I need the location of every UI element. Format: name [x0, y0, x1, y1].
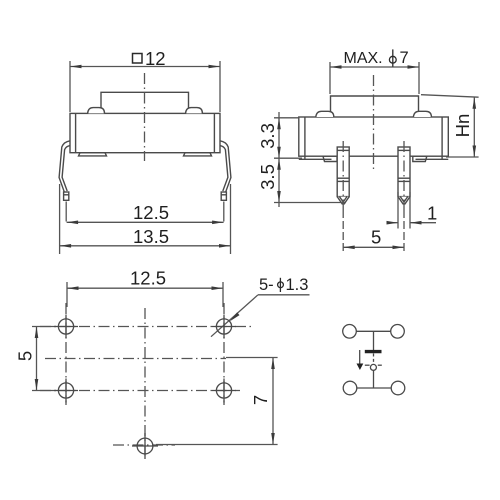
- dim 5 arrows (side): [343, 246, 355, 250]
- dim 5 extension lines (bottom): [32, 326, 56, 328]
- row 1 centerline: [40, 326, 253, 328]
- side view left bump: [316, 111, 334, 117]
- dim □12 line: [70, 66, 220, 68]
- leader 5-phi1.3 text: [259, 276, 308, 294]
- bottom wire: [357, 387, 391, 389]
- svg-text:5: 5: [371, 227, 381, 248]
- dim 13.5 extension lines: [59, 184, 61, 254]
- dim □12 text: [133, 48, 166, 69]
- terminal circle top-right: [391, 325, 405, 339]
- dim 3.3/3.5 line: [278, 112, 280, 207]
- front view centerline: [144, 73, 146, 161]
- leader arrow: [230, 312, 240, 321]
- row 2 centerline: [40, 390, 240, 392]
- dim 12.5 foot centerlines: [65, 202, 67, 222]
- svg-text:1.3: 1.3: [286, 276, 309, 294]
- svg-text:5-: 5-: [259, 276, 274, 294]
- front view left leg: [59, 141, 70, 192]
- dim Hn arrows: [473, 97, 477, 109]
- dim 12.5 extension lines (bottom): [66, 282, 68, 307]
- dim 1 arrows: [387, 221, 399, 225]
- svg-text:12.5: 12.5: [130, 268, 166, 289]
- side view body: [299, 117, 449, 156]
- svg-text:12: 12: [145, 48, 166, 69]
- front view left bump: [88, 108, 105, 114]
- dim □12 arrows: [70, 65, 82, 69]
- svg-text:MAX.: MAX.: [344, 50, 383, 67]
- svg-text:3.5: 3.5: [257, 164, 278, 190]
- dim 7 extension lines: [226, 357, 278, 359]
- dim 12.5 arrows (bottom): [67, 286, 79, 290]
- dim Hn extension lines: [421, 95, 479, 98]
- dim 5 line (side): [343, 246, 404, 248]
- dim 7 line: [272, 358, 274, 445]
- side view button cap: [331, 96, 419, 117]
- front view right bump: [186, 108, 203, 114]
- leader 5-phi1.3 diagonal: [211, 295, 258, 337]
- left column centerline: [65, 303, 67, 405]
- hole 5 horizontal centerline: [113, 444, 175, 446]
- middle vertical centerline: [144, 308, 146, 459]
- hole bottom-left: [58, 383, 73, 398]
- terminal circle bottom-right: [391, 381, 405, 395]
- dim 5 arrows (bottom): [35, 327, 39, 339]
- hole bottom-right: [216, 383, 231, 398]
- right column centerline: [223, 303, 225, 405]
- top wire: [356, 330, 390, 332]
- svg-text:1: 1: [427, 203, 437, 224]
- svg-text:3.3: 3.3: [257, 123, 278, 149]
- side view inner wall lines: [304, 117, 306, 159]
- front view right leg: [220, 141, 231, 192]
- dim 13.5 line: [60, 245, 231, 247]
- dim 12.5 arrows (front): [67, 221, 79, 225]
- leader 5-phi1.3 underline: [258, 294, 310, 296]
- svg-text:5: 5: [15, 351, 36, 361]
- right pin: [398, 147, 410, 197]
- svg-text:13.5: 13.5: [133, 226, 169, 247]
- hole top-right: [216, 319, 231, 334]
- lower stem wire: [373, 370, 375, 388]
- svg-text:7: 7: [400, 49, 409, 67]
- dim 12.5 line (bottom): [67, 287, 223, 289]
- dim 1 lines: [387, 222, 398, 224]
- svg-text:Hn: Hn: [452, 114, 473, 138]
- dim Hn line: [473, 97, 475, 157]
- left pin: [337, 147, 349, 197]
- dashed actuator link: [373, 354, 375, 365]
- dim 5 line (bottom): [36, 327, 38, 391]
- dim 3.3/3.5 extension lines: [274, 117, 299, 119]
- side view right bottom tab: [413, 156, 427, 161]
- svg-text:12.5: 12.5: [133, 202, 169, 223]
- dim MAX phi7 text: [344, 49, 409, 67]
- press arrow head: [357, 364, 364, 371]
- upper stem wire: [373, 331, 375, 350]
- contact dot circle: [370, 364, 376, 370]
- front view right bottom tab: [184, 153, 212, 156]
- dim MAX phi7 extension lines: [329, 62, 331, 94]
- middle horizontal centerline: [45, 358, 226, 360]
- dim □12 extension lines: [69, 61, 71, 112]
- side view centerline: [373, 75, 375, 170]
- dashes beside contact: [365, 364, 370, 366]
- right pin centerline: [403, 141, 405, 210]
- dim 3.3/3.5 arrows: [277, 118, 281, 130]
- dim 13.5 arrows: [60, 244, 72, 248]
- side view right bump: [413, 111, 431, 117]
- dim 12.5 line (front): [67, 221, 224, 223]
- dim MAX phi7 line: [330, 66, 419, 68]
- press arrow shaft: [359, 350, 361, 364]
- pin centerline extensions for dim 5: [342, 210, 344, 252]
- terminal circle top-left: [343, 325, 357, 339]
- left pin centerline: [342, 141, 344, 210]
- dim 7 arrows: [271, 358, 275, 370]
- terminal circle bottom-left: [343, 381, 357, 395]
- hole top-left: [58, 319, 73, 334]
- front view right foot: [221, 192, 226, 200]
- front view left bottom tab: [79, 153, 107, 156]
- front view left foot: [64, 192, 69, 200]
- front view button cap: [101, 92, 189, 113]
- svg-text:7: 7: [250, 395, 271, 405]
- movable contact bar: [365, 350, 382, 353]
- hole center: [137, 438, 153, 454]
- dim 1 extension lines: [397, 192, 399, 229]
- side view left bottom tab: [323, 156, 337, 161]
- dim MAX phi7 arrows: [330, 65, 342, 69]
- front view body: [70, 113, 220, 152]
